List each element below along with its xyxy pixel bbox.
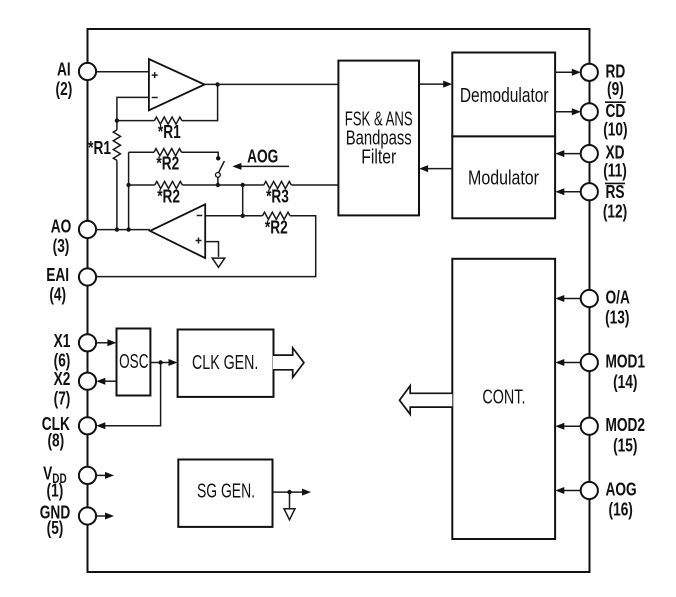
node row3 left xyxy=(126,183,130,187)
wire row2 resistor branch xyxy=(129,151,154,153)
SG GEN box xyxy=(178,460,272,527)
svg-text:X1: X1 xyxy=(54,331,71,351)
svg-text:*R1: *R1 xyxy=(158,122,181,142)
pin CD circle xyxy=(581,103,598,120)
svg-text:(9): (9) xyxy=(607,79,624,99)
CLK GEN open arrow xyxy=(273,348,304,378)
node switch bottom xyxy=(216,183,220,187)
wire OSC to X2 xyxy=(96,378,116,385)
wire row3 to FSK filter xyxy=(291,184,338,186)
ground U2 xyxy=(212,258,225,267)
svg-text:(15): (15) xyxy=(613,436,637,456)
wire VDD arrow xyxy=(96,472,114,479)
CONT box xyxy=(452,259,555,539)
svg-text:*R3: *R3 xyxy=(266,187,289,207)
label RS (12) overline xyxy=(605,182,625,184)
svg-text:(14): (14) xyxy=(613,372,637,392)
arrow FSK to demodulator xyxy=(419,81,452,88)
wire SG GEN output xyxy=(273,489,312,496)
svg-text:AOG: AOG xyxy=(606,480,637,500)
svg-text:(13): (13) xyxy=(605,308,629,328)
op-amp U1 xyxy=(149,59,205,110)
arrow MOD1 to CONT xyxy=(555,359,581,366)
svg-text:(4): (4) xyxy=(49,285,66,305)
wire OSC to CLK GEN xyxy=(150,359,177,366)
svg-text:AOG: AOG xyxy=(247,147,278,167)
pin RD circle xyxy=(581,64,598,81)
svg-text:SG GEN.: SG GEN. xyxy=(197,479,255,502)
svg-text:CONT.: CONT. xyxy=(482,385,525,408)
wire row3-row4 vertical xyxy=(242,185,244,216)
svg-text:*R1: *R1 xyxy=(88,138,111,158)
pin O/A circle xyxy=(581,290,598,307)
svg-text:CD: CD xyxy=(606,101,626,121)
arrow RS to modulator xyxy=(555,188,581,195)
CLK GEN box xyxy=(178,330,274,397)
svg-text:(2): (2) xyxy=(56,79,73,99)
pin GND circle xyxy=(79,507,96,524)
analog switch pole circle xyxy=(216,173,221,178)
svg-text:X2: X2 xyxy=(54,369,71,389)
wire row3 middle segment xyxy=(182,184,263,186)
pin CLK circle xyxy=(79,417,96,434)
svg-text:(12): (12) xyxy=(603,201,627,221)
op-amp U2 xyxy=(150,204,205,258)
wire row4 to EAI xyxy=(96,216,316,277)
svg-text:CLK GEN.: CLK GEN. xyxy=(192,351,258,374)
pin XD circle xyxy=(581,145,598,162)
svg-text:O/A: O/A xyxy=(606,288,631,308)
svg-text:(6): (6) xyxy=(54,350,71,370)
svg-text:*R2: *R2 xyxy=(156,154,179,174)
pin X1 circle xyxy=(79,334,96,351)
pin VDD circle xyxy=(79,467,96,484)
svg-text:Modulator: Modulator xyxy=(468,166,539,189)
pin AO circle xyxy=(79,221,96,238)
wire AO to op-amp U2 xyxy=(96,229,150,231)
wire GND arrow xyxy=(96,513,114,520)
wire row2 branch vertical xyxy=(128,152,130,229)
modulator box xyxy=(452,136,555,218)
pin MOD2 circle xyxy=(581,418,598,435)
node row4 junction xyxy=(241,214,245,218)
resistor *R1 feedback xyxy=(154,117,182,124)
arrow MOD2 to CONT xyxy=(555,423,581,430)
wire U2 + input to ground xyxy=(205,242,218,257)
svg-text:EAI: EAI xyxy=(46,265,69,285)
wire AI to op-amp U1 + input xyxy=(96,71,149,73)
svg-text:(8): (8) xyxy=(47,431,64,451)
wire U1 inverting input loop xyxy=(117,97,149,120)
node AO row first xyxy=(115,227,119,231)
node feedback junction xyxy=(115,118,119,122)
AOG annotation arrow xyxy=(232,163,289,170)
resistor *R2 row4 xyxy=(263,212,291,219)
svg-text:(7): (7) xyxy=(54,389,71,409)
svg-text:*R2: *R2 xyxy=(265,217,288,237)
svg-text:Filter: Filter xyxy=(361,145,396,168)
svg-text:(10): (10) xyxy=(603,120,627,140)
wire OSC junction to CLK pin xyxy=(96,363,160,430)
wire switch to row3 xyxy=(217,177,219,185)
arrow demodulator to RD xyxy=(555,69,581,76)
node U1 output junction xyxy=(215,82,219,86)
OSC box xyxy=(117,329,151,396)
demodulator box xyxy=(452,53,555,137)
resistor *R2 row2 xyxy=(154,149,182,156)
svg-text:(1): (1) xyxy=(47,481,64,501)
wire row2 to switch xyxy=(182,152,219,158)
svg-text:(3): (3) xyxy=(53,236,70,256)
pin MOD1 circle xyxy=(581,354,598,371)
svg-text:AO: AO xyxy=(51,217,72,237)
arrow O/A to CONT xyxy=(555,295,581,302)
wire X1 to OSC xyxy=(96,339,116,346)
arrow AOG pin to CONT xyxy=(555,487,581,494)
svg-text:AI: AI xyxy=(57,60,71,80)
wire SG GEN to ground xyxy=(289,492,291,508)
resistor *R2 row3 xyxy=(155,181,183,188)
wire feedback row left stub xyxy=(117,120,154,122)
node row3 right junction xyxy=(241,183,245,187)
wire row3 left segment xyxy=(129,184,155,186)
wire U2 inverting input xyxy=(205,215,262,217)
label CD (10) overline xyxy=(605,101,626,103)
svg-text:OSC: OSC xyxy=(119,350,149,373)
svg-text:RS: RS xyxy=(606,182,625,202)
outer IC boundary box xyxy=(88,29,590,572)
svg-text:Demodulator: Demodulator xyxy=(460,84,549,107)
CONT open arrow xyxy=(400,386,453,415)
node switch top xyxy=(216,156,220,160)
svg-text:MOD2: MOD2 xyxy=(606,415,646,435)
analog switch AOG blade xyxy=(219,161,225,173)
wire feedback row right stub xyxy=(182,84,218,120)
ground SG GEN xyxy=(284,509,295,520)
resistor *R3 xyxy=(264,181,292,188)
arrow modulator to FSK xyxy=(419,165,452,172)
pin X2 circle xyxy=(79,373,96,390)
svg-text:(11): (11) xyxy=(603,160,627,180)
svg-text:*R2: *R2 xyxy=(157,187,180,207)
FSK & ANS bandpass filter box xyxy=(338,61,419,216)
wire U1 output to FSK filter xyxy=(205,83,339,85)
node AO row second xyxy=(126,227,130,231)
pin AI circle xyxy=(79,63,96,80)
pin EAI circle xyxy=(79,268,96,285)
pin AOG circle xyxy=(581,482,598,499)
arrow demodulator to CD xyxy=(555,108,581,115)
svg-text:(5): (5) xyxy=(47,518,64,538)
svg-text:MOD1: MOD1 xyxy=(606,352,646,372)
resistor *R1 vertical xyxy=(113,121,120,230)
arrow XD to modulator xyxy=(555,150,581,157)
pin RS circle xyxy=(581,183,598,200)
svg-text:(16): (16) xyxy=(609,500,633,520)
